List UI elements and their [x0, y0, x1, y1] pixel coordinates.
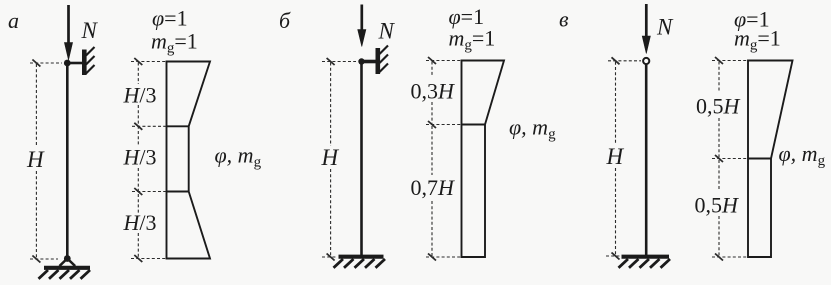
svg-text:mg=1: mg=1: [151, 29, 198, 57]
load arrow N (panel b): [358, 5, 366, 47]
svg-text:N: N: [656, 15, 674, 40]
svg-text:в: в: [559, 7, 569, 32]
wall (top roller support) a: [84, 47, 94, 75]
svg-text:H/3: H/3: [123, 82, 157, 107]
link to wall b: [362, 60, 377, 64]
svg-text:H/3: H/3: [123, 145, 157, 170]
dimension line H/3 (panel a): [131, 58, 166, 262]
svg-text:0,3H: 0,3H: [411, 79, 456, 104]
svg-text:N: N: [81, 18, 99, 43]
svg-text:0,7H: 0,7H: [411, 175, 456, 200]
dimension line 0.5H/0.5H (panel v): [712, 57, 748, 261]
link to wall a: [67, 62, 83, 65]
diagram phi/mg outline (panel b): [462, 61, 505, 258]
column b: [360, 62, 363, 256]
wall (top roller support) b: [378, 46, 388, 75]
column v: [645, 64, 648, 255]
internal line at 0.5H (panel v): [748, 158, 771, 160]
diagram phi/mg outline (panel a): [167, 62, 211, 259]
column a: [66, 63, 69, 259]
fixed support (panel b): [334, 257, 386, 268]
svg-text:0,5H: 0,5H: [695, 193, 740, 218]
dimension line H (panel b): [322, 58, 356, 261]
fixed support (panel v): [619, 257, 671, 268]
svg-text:φ=1: φ=1: [152, 6, 188, 31]
svg-text:а: а: [8, 8, 19, 33]
svg-text:H: H: [606, 144, 625, 169]
svg-text:mg=1: mg=1: [734, 26, 781, 54]
bottom pin support a: [39, 255, 91, 279]
dimension line H (panel v): [606, 57, 641, 259]
top pin node b: [358, 58, 364, 64]
svg-text:N: N: [378, 19, 396, 44]
dimension line H (panel a): [30, 60, 62, 263]
svg-text:H: H: [26, 147, 45, 172]
internal line at 0.3H (panel b): [462, 124, 486, 126]
internal line at H/3 (panel a): [167, 125, 189, 127]
internal line at 2H/3 (panel a): [167, 191, 189, 193]
svg-text:H: H: [321, 145, 340, 170]
dimension line 0.3H/0.7H (panel b): [426, 57, 461, 261]
svg-text:H/3: H/3: [123, 210, 157, 235]
top pin node a: [64, 60, 71, 67]
load arrow N (panel a): [64, 5, 72, 60]
top hinge node v: [643, 58, 649, 64]
svg-text:б: б: [279, 8, 291, 33]
diagram phi/mg outline (panel v): [748, 61, 793, 258]
svg-text:0,5H: 0,5H: [696, 94, 741, 119]
svg-text:mg=1: mg=1: [449, 26, 496, 54]
load arrow N (panel v): [642, 4, 650, 54]
